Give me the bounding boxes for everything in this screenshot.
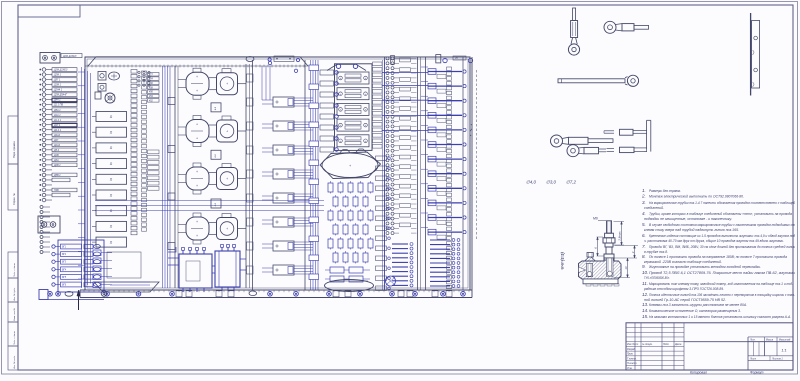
svg-text:Провода 'ВГ, 'ВЗ, 'ВМ, 'ВИБ, 2: Провода 'ВГ, 'ВЗ, 'ВМ, 'ВИБ, 20ВЧ, 30 см… [649,245,795,249]
contactor K1 coil body [186,72,209,95]
lower subpanel with fuse rows [58,240,104,292]
chassis bottom flange ticks [83,290,85,292]
svg-text:Д4Г: Д4Г [53,139,59,142]
svg-text:4.: 4. [642,211,646,216]
fastener block A2 [98,84,106,92]
washer oval symbol [109,72,120,80]
svg-text:+: + [349,164,351,168]
leader arrow bottom [78,291,80,310]
cable lug tip 1 crimp sleeve [571,21,578,38]
interlink box TB3 [211,199,221,208]
left margin cell Podp. i data 2 [8,322,18,346]
svg-text:2.: 2. [641,194,646,199]
svg-text:Трубки, кроме которых в таблиц: Трубки, кроме которых в таблице соединен… [649,212,792,216]
svg-text:12.: 12. [642,292,648,297]
contactor K4 coil body [186,217,209,240]
svg-text:рядным способом шрифтом 3-ПРЗ: рядным способом шрифтом 3-ПРЗ ГОСТ26.008… [643,287,724,291]
chassis bottom flange [80,289,472,291]
svg-text:ной линией Гр-10-АС серой ГОСТ: ной линией Гр-10-АС серой ГОСТ9559-75 НВ… [644,298,726,302]
svg-text:Д2М Д2ХЕЗ: Д2М Д2ХЕЗ [62,55,77,58]
resistor bar stack R1-R9 [96,112,127,122]
svg-text:Д1Г 1: Д1Г 1 [53,124,61,127]
svg-text:Лист: Лист [749,357,756,360]
svg-text:7.: 7. [642,244,646,249]
cable lug tip 3 ring [625,77,628,85]
svg-text:Разраб.: Разраб. [627,348,636,351]
cable lug tip 2 ring [604,21,616,33]
svg-text:8.: 8. [642,254,646,259]
contactor K2 coil body [186,120,209,143]
connector strip XS1 segments [131,70,137,74]
terminal strip X3 lower contacts [40,206,43,209]
bottom coil oval [325,280,374,292]
left margin cell Perv. primen. [8,116,18,164]
bracket slot left white [586,264,592,277]
contactor K1 bottom terminal [193,95,201,99]
connector module rows [273,97,294,107]
svg-text:∅3,0: ∅3,0 [546,180,556,185]
horizontal harness wires upper [382,72,428,74]
side plate hole 1 [754,36,758,40]
relay row RL4 [337,119,369,131]
contactor K3 coil body [186,167,209,190]
svg-text:Листов 1: Листов 1 [771,357,783,360]
svg-text:+: + [196,75,198,79]
contactor bus rails [174,66,176,288]
contactor K3 top terminal [193,163,201,167]
svg-text:Д5А 1: Д5А 1 [53,109,61,112]
title block designation cell [684,341,793,343]
contactor K4 link wires [209,222,217,224]
svg-text:Д1А 1: Д1А 1 [53,114,61,117]
title block table [626,323,793,370]
mid mounting plate [252,60,254,290]
fastener block A3 [95,92,101,99]
svg-text:Д2М 1: Д2М 1 [53,74,62,77]
contactor K2 link wires [209,124,217,126]
dimension line right 2 [615,245,639,247]
contactor K3 armature block [217,168,238,190]
side plate body [752,21,760,89]
svg-text:ч. расстановка 40-70 мм друг о: ч. расстановка 40-70 мм друг от друга, о… [644,239,784,243]
bracket bolt left shank [587,272,592,277]
grommet symbol [105,93,115,103]
mid plate upper verticals [261,66,263,100]
svg-text:Д5В 1: Д5В 1 [53,174,61,177]
cable lug tip 4 crimp [569,137,589,144]
svg-text:в трубке поз.8.: в трубке поз.8. [644,250,668,254]
bracket bottom plate [583,279,618,284]
svg-text:На зажимах контактных 1 и 15 в: На зажимах контактных 1 и 15 вместо болт… [649,315,791,319]
svg-text:Т.контр.: Т.контр. [627,357,637,360]
relay modules below grid [330,267,344,273]
connector strip XS2 segments [142,71,147,74]
terminal strip X1 contact rows [40,69,41,70]
svg-text:Дата: Дата [674,343,682,346]
jumper wire to elbow upper [633,130,647,132]
stud hex flange [603,238,615,243]
svg-text:+: + [226,177,228,181]
svg-text:Формат: Формат [750,371,764,375]
contactor bus stub boxes [247,74,254,82]
bracket section hatched body [579,258,622,279]
cable lug tip 5 crimp [584,147,599,153]
svg-text:Масштаб: Масштаб [779,338,791,341]
left module foot trapezoid [94,282,159,292]
svg-text:6.: 6. [642,233,646,238]
svg-text:Утв.: Утв. [627,367,633,370]
left margin cell Vzam. inv. No [8,302,18,322]
contactor K4 armature block [217,218,238,240]
cable lug tip 5 ring [567,145,579,157]
svg-text:11.: 11. [642,281,648,286]
cable lug tip 4 neck [562,137,569,144]
svg-text:Перв. примен.: Перв. примен. [12,140,16,158]
svg-text:№ докум.: № докум. [642,343,653,346]
contactor K4 bottom terminal [193,240,201,244]
svg-text:+: + [196,123,198,127]
cable lug tip 4 ring [551,135,563,147]
svg-text:Клеммы поз.3 заполнить шурупы: Клеммы поз.3 заполнить шурупы расстояние… [649,303,747,307]
cable lug tip 5 wire [599,148,607,150]
svg-text:+: + [226,129,228,133]
svg-text:Подп. и дата: Подп. и дата [13,263,16,277]
wire bus left stubs [78,71,85,73]
right panel bracket top [436,55,441,63]
svg-text:Изм Лист: Изм Лист [627,343,638,346]
cable lug tip 1 neck [571,38,577,45]
jumper crimp upper [620,129,634,135]
panel divider verticals [384,57,386,290]
svg-text:∅7,2: ∅7,2 [566,180,576,185]
cable lug tip 2 wire [634,25,649,29]
cable lug tip 2 neck and crimp [616,24,623,31]
svg-text:Д1.4 1: Д1.4 1 [53,119,62,122]
contactor K4 top terminal [193,213,201,217]
tag column right of grid [376,156,387,161]
oval small top-left block [246,57,254,62]
left foot bracket [39,290,48,300]
svg-text:Инв. № подл.: Инв. № подл. [13,355,16,369]
relay row RL2 [337,88,369,100]
left margin cell Podp. i data [8,252,18,278]
contactor K1 link wires [209,77,217,79]
svg-text:В случае свободного состояния: В случае свободного состояния маркировоч… [649,223,795,227]
label boxes column B [148,73,160,77]
bracket left stud head [585,256,596,261]
svg-text:Д4А4: Д4А4 [53,134,61,137]
svg-text:∅4,0: ∅4,0 [526,180,536,185]
svg-text:Жгутование на проводке установ: Жгутование на проводке установить методо… [648,265,761,269]
contactor K2 armature block [217,120,238,142]
svg-text:15.: 15. [642,314,648,319]
svg-text:Н4В: Н4В [54,189,59,192]
bracket left stud collar [587,253,593,258]
svg-text:Маркировать тип клемму тому, з: Маркировать тип клемму тому, заводской н… [649,282,794,286]
wire bus left vertical runs [81,67,83,288]
side plate break marks [753,50,755,55]
jumper wire to elbow lower [634,147,647,149]
jumper crimp lower [620,147,635,152]
contactor K2 bottom terminal [193,143,201,147]
transformer interconnect wires [168,247,179,265]
svg-text:Д3А: Д3А [53,159,59,162]
contactor K1 armature block [217,73,238,95]
svg-text:2,8max: 2,8max [618,231,622,242]
lower bolt circle with cross [386,276,396,286]
relay row RL1 [337,72,369,84]
svg-text:Подп.: Подп. [663,343,670,346]
svg-text:К-К (1:1): К-К (1:1) [560,252,565,269]
terminal oval low [249,291,257,296]
svg-text:По полюсе 1 проложить провода: По полюсе 1 проложить провода на напряже… [649,255,787,259]
svg-text:+: + [196,137,198,141]
svg-text:Монтаж электрический выполнить: Монтаж электрический выполнить по ОСТ92.… [649,195,744,199]
svg-text:+: + [226,82,228,86]
svg-text:Д4А 1: Д4А 1 [53,99,61,102]
svg-text:Д1М 1: Д1М 1 [53,84,62,87]
interlink box TB1 [211,103,221,112]
lower-left transformer T2 [215,251,240,287]
dimension line right 3 [614,277,631,279]
svg-text:13.: 13. [642,302,648,307]
svg-text:Лит.: Лит. [749,338,756,341]
jumper fork upper [604,130,614,132]
svg-text:Пров.: Пров. [627,353,634,356]
bracket slot right white [606,258,613,276]
stud M6 shaft top [607,221,612,233]
label boxes column B lower [148,150,160,154]
relay row RL5 [337,135,369,147]
contactor K2 top terminal [193,116,201,120]
bracket bolt right shank [607,271,612,276]
bent wire vertical tube [646,120,648,149]
jumper fork lower [607,148,615,150]
svg-text:Д2А4: Д2А4 [53,144,61,147]
interlink box TB2 [211,150,221,159]
terminal dot column D1 [386,57,389,60]
stud collar upper [605,233,614,238]
mid vertical wire runs [310,60,312,290]
left margin cell Inv. No podl. [8,346,18,370]
svg-text:Д1.1 ПВ: Д1.1 ПВ [53,104,63,107]
cable lug tip 1 wire [573,8,576,21]
terminal strip X2 box [38,216,60,233]
svg-text:Полюса идентичные линией поз.1: Полюса идентичные линией поз.106 заcodeа… [649,293,796,297]
terminal dot column D1 tags [400,58,411,62]
svg-text:3.: 3. [642,200,646,205]
right panel relay bars [428,71,462,73]
svg-text:+: + [196,220,198,224]
right panel ladder strip [447,67,452,71]
left stub connectors to contactor bus [168,98,175,105]
svg-text:Справ. №: Справ. № [12,193,16,205]
svg-text:+: + [196,184,198,188]
bracket notch wedge [579,267,586,273]
contact dot grid top [138,71,140,73]
svg-text:Инв. № дубл.: Инв. № дубл. [13,287,16,301]
svg-text:Д4.4 1: Д4.4 1 [53,129,62,132]
first-use stamp box [18,5,80,17]
fastener block A1 [98,72,106,81]
left sub panel bars x390..415 [392,243,408,245]
capacitor grid block [328,183,333,192]
svg-text:Масса: Масса [766,338,774,341]
svg-text:Копировал: Копировал [690,371,707,375]
svg-text:14.: 14. [642,308,648,313]
dimension line left [597,236,604,238]
svg-text:+: + [226,227,228,231]
svg-text:Провод Т2,5 ПВЛ-6,1 ОСТ2780: Провод Т2,5 ПВЛ-6,1 ОСТ27809-76. Покрыти… [649,271,795,275]
chassis mounting feet bolts [48,292,53,297]
chassis outline [85,57,470,290]
svg-text:+: + [196,234,198,238]
svg-text:Д2Н4 1: Д2Н4 1 [53,89,63,92]
side plate hole 2 [754,68,758,72]
svg-text:М6: М6 [593,217,598,221]
cable lug tip 4 rod [588,139,613,143]
svg-text:На маркировочные трубки поз.1-: На маркировочные трубки поз.1-4.7 нанест… [649,201,795,205]
terminal strip X1 top box [40,53,60,64]
svg-text:Д2М Д5А4Г: Д2М Д5А4Г [53,94,68,97]
relay panel left tag column [320,70,334,75]
svg-text:9.: 9. [642,264,646,269]
contactor K3 bottom terminal [193,190,201,194]
left margin cell Sprav. No [8,164,18,210]
right lower panel rows [430,239,450,241]
svg-text:ТУ6-«ПЛ090500-80».: ТУ6-«ПЛ090500-80». [644,276,670,280]
contactor K3 link wires [209,172,217,174]
contactor K1 top terminal [193,68,201,72]
harness verticals right of relay tags [381,60,383,290]
terminal strip X1 header label [61,54,82,58]
svg-text:Н.контр.: Н.контр. [627,362,637,365]
right panel edge lines [425,57,427,290]
module feet tabs on flange [176,291,182,297]
svg-text:10.: 10. [642,270,648,275]
wire bus mid verticals [162,66,164,288]
relay panel label tags [373,62,383,66]
main coil oval (fish) [320,152,381,179]
svg-text:клемм снизу вверх над трубой н: клемм снизу вверх над трубой надвинуть л… [644,228,739,232]
terminal strip X1 bold rows [52,98,77,102]
stud base flange [604,254,614,260]
mid bus tag boxes [309,65,319,71]
side plate edge line [750,13,752,96]
small parts bottom left [93,250,101,256]
stud lower rings [605,243,613,247]
svg-text:Подп. и дата: Подп. и дата [13,331,16,345]
cable lug tip 5 neck [579,147,585,154]
svg-text:+: + [196,89,198,93]
cable lug tip 3 rod [558,79,625,83]
svg-text:Взам. инв.№: Взам. инв.№ [13,307,16,321]
svg-text:Д5.4: Д5.4 [53,149,60,152]
bracket bottom tick labels [586,284,591,286]
svg-text:Д5Г 1: Д5Г 1 [53,79,61,82]
stud lower shaft [606,247,612,254]
svg-text:1.: 1. [642,188,646,193]
svg-text:Д2В 1: Д2В 1 [53,164,61,167]
left margin cell Inv. No dubl. [8,278,18,302]
horizontal harness wires middle [95,200,324,202]
svg-text:Климатическое исполнение О, ка: Климатическое исполнение О, категория ра… [649,309,741,313]
svg-text:соединений.: соединений. [644,206,664,210]
svg-text:Размеры для справок.: Размеры для справок. [649,189,681,193]
svg-text:Д2М Д2ХЕЗ: Д2М Д2ХЕЗ [53,69,68,72]
cable lug tip 1 ring [568,44,579,55]
svg-text:1:1: 1:1 [781,349,786,353]
svg-text:Д1В: Д1В [53,154,59,157]
title block right section [747,337,749,370]
svg-text:керамикой -220В согласно табли: керамикой -220В согласно таблице соедине… [644,260,722,264]
lower-left transformer T1 [179,254,212,288]
dimension line right 1 [614,221,625,223]
svg-text:10: 10 [624,266,628,270]
relay row RL3 [337,103,369,115]
svg-text:подводки не зачищенные, остано: подводки не зачищенные, остановке - к на… [644,217,732,221]
svg-text:Крепежные изделия состоящие из: Крепежные изделия состоящие из 1-5 прово… [649,234,795,238]
svg-text:5.: 5. [642,222,646,227]
relay panel P1 outline [335,64,373,151]
svg-text:+: + [196,170,198,174]
